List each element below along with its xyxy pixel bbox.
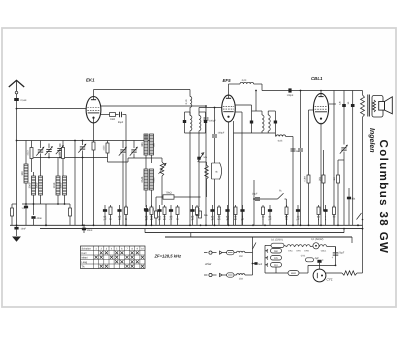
svg-text:M: M	[125, 218, 127, 221]
resistor R9	[196, 208, 199, 216]
svg-text:0546: 0546	[141, 176, 144, 182]
wire CBL1 anode right	[329, 103, 336, 105]
resistor R10 75kΩ	[156, 196, 163, 198]
heater EF5	[295, 245, 302, 247]
wire CBL1 top cap	[320, 91, 322, 95]
capacitor C15	[291, 148, 296, 150]
speaker LS	[379, 102, 385, 111]
wire T1 bottom drop	[189, 133, 191, 225]
resistor R8 detector load	[198, 133, 200, 207]
switch table	[81, 246, 146, 269]
svg-text:CBL1: CBL1	[311, 76, 323, 81]
heater EK1	[287, 245, 294, 247]
component row item x227	[227, 205, 229, 225]
svg-text:M: M	[177, 218, 179, 221]
svg-text:Ingelen: Ingelen	[368, 128, 376, 153]
wire EF5 screen drop	[235, 111, 242, 113]
potentiometer P2 0,1M	[160, 162, 164, 176]
wire bottom join	[45, 204, 47, 225]
svg-text:Kurz: Kurz	[82, 252, 88, 255]
component row item x171	[170, 205, 172, 225]
svg-text:40nF: 40nF	[37, 217, 43, 220]
wire EF5 top cap	[228, 84, 230, 95]
component row item x235	[235, 205, 237, 225]
svg-text:102: 102	[239, 255, 244, 258]
svg-text:365: 365	[141, 142, 144, 147]
terminal antenna	[15, 91, 18, 94]
IF transformer T2 secondary coil	[268, 115, 270, 131]
svg-text:10nF: 10nF	[21, 228, 27, 231]
resistor R15 output zigzag	[361, 95, 365, 117]
svg-text:MNG: MNG	[291, 272, 296, 275]
coil L7 365	[150, 134, 154, 155]
svg-text:1013: 1013	[27, 150, 30, 156]
svg-text:100: 100	[21, 171, 24, 176]
svg-text:Lang: Lang	[82, 261, 88, 264]
resistor R6 1000 osc	[106, 143, 109, 153]
svg-text:100pF: 100pF	[287, 94, 294, 97]
wire osc bottom	[145, 190, 147, 207]
wire left block right drop	[74, 141, 76, 226]
svg-text:3000: 3000	[29, 182, 32, 188]
resistor R4	[69, 208, 72, 216]
svg-text:3000: 3000	[36, 182, 39, 188]
wire anode feed drop	[333, 91, 335, 206]
component row item x212	[212, 205, 214, 225]
wire rail R4	[165, 236, 352, 238]
wire EK1 cathode	[93, 117, 95, 226]
svg-text:100pF: 100pF	[209, 120, 216, 123]
variable capacitor C21 tone	[341, 147, 346, 149]
coil L5 3000	[63, 176, 67, 195]
coil L9 0530	[150, 169, 154, 190]
svg-text:1000: 1000	[103, 145, 106, 151]
wire rail R3	[145, 232, 344, 234]
coil L12 0,03 det	[274, 133, 276, 137]
switch S1 input	[252, 237, 254, 275]
coil L10 0,10	[190, 97, 192, 108]
component row item x298	[297, 205, 299, 225]
capacitor C13 100pF	[205, 106, 207, 117]
wire EF5 anode	[235, 104, 251, 106]
svg-text:kΩ: kΩ	[150, 218, 153, 221]
wire af coupling	[155, 197, 157, 211]
resistor R20 af zigzag	[205, 165, 209, 179]
capacitor C22	[298, 148, 303, 150]
trimmer C2	[38, 149, 43, 151]
component row item x197	[196, 205, 198, 225]
capacitor C6 1,5	[24, 206, 28, 209]
component row item x192	[192, 205, 194, 225]
coil L1 100	[24, 164, 28, 183]
component row item x146	[146, 205, 148, 225]
wire EF5 suppressor	[233, 121, 235, 225]
svg-text:4µF: 4µF	[315, 257, 320, 260]
switch S2 Tk	[278, 193, 284, 199]
wire mains drop	[335, 247, 337, 266]
component row item x110	[110, 205, 112, 225]
wire rail R1 chassis	[10, 224, 363, 226]
variable capacitor C4 tuning	[57, 147, 62, 149]
capacitor C7 20nF	[82, 228, 86, 231]
resistor R13 1M	[337, 175, 340, 183]
switch S3 output	[357, 213, 362, 220]
capacitor C5 40nF	[31, 216, 35, 219]
resistor R14 25k	[322, 175, 325, 183]
svg-text:0530: 0530	[153, 177, 156, 183]
capacitor C24 4µF	[317, 260, 321, 263]
svg-text:1013: 1013	[53, 182, 56, 188]
svg-text:M: M	[110, 218, 112, 221]
wire filter loop	[308, 264, 336, 266]
svg-text:5nF: 5nF	[258, 263, 263, 266]
svg-text:75kΩ: 75kΩ	[165, 192, 171, 195]
wire T2 left to cathode	[234, 132, 252, 134]
capacitor 10nF to ground	[14, 227, 18, 230]
capacitor C8 50pF	[119, 112, 121, 118]
component row item x177	[177, 205, 179, 225]
trimmer C10 osc	[131, 149, 136, 151]
resistor R18 cathode EK1	[92, 142, 95, 150]
component row item x105	[104, 205, 106, 225]
resistor R11	[155, 211, 158, 218]
svg-text:0,3M: 0,3M	[304, 176, 307, 181]
resistor R12 0,3M	[307, 175, 310, 183]
svg-text:103: 103	[239, 278, 244, 281]
node grid CBL1	[320, 90, 322, 92]
resistor R7	[199, 211, 202, 218]
heater EFB	[303, 245, 310, 247]
svg-text:0,03: 0,03	[278, 140, 283, 143]
node grid EK1	[74, 140, 76, 142]
capacitor C12	[149, 208, 153, 211]
wire to detector line	[261, 84, 263, 91]
svg-text:CBL1: CBL1	[321, 250, 327, 253]
svg-text:3000: 3000	[60, 182, 63, 188]
svg-text:+: +	[322, 258, 324, 262]
svg-text:0,03: 0,03	[242, 79, 247, 82]
svg-text:kΩ: kΩ	[163, 218, 166, 221]
potentiometer P1 volume	[211, 163, 213, 179]
wire osc mid	[128, 157, 152, 159]
component row item x126	[125, 205, 127, 225]
resistor R3 left edge	[11, 208, 14, 216]
coil L3 3000	[39, 176, 43, 195]
svg-text:EFB: EFB	[304, 250, 309, 253]
svg-text:Schalter: Schalter	[82, 247, 91, 250]
resistor R17 zigzag	[326, 272, 342, 274]
resistor R5 1000	[101, 114, 110, 116]
fuse MNG	[288, 271, 299, 276]
coil L6 365	[144, 134, 148, 155]
wire osc top rail	[75, 140, 151, 142]
capacitor C16 100µF	[214, 108, 216, 135]
svg-text:Mittel: Mittel	[82, 256, 88, 259]
wire mid junction	[34, 157, 108, 159]
svg-text:20µF: 20µF	[339, 252, 345, 255]
IF transformer T1 secondary coil	[199, 116, 201, 131]
wire s2 drop	[253, 180, 255, 225]
svg-text:ZF=128,5 kHz: ZF=128,5 kHz	[154, 254, 183, 259]
capacitor C23 20µF electrolytic	[333, 252, 339, 254]
coil L2 3000	[32, 176, 36, 195]
voltage selector taps	[271, 249, 282, 254]
pickup input 1	[204, 252, 208, 254]
coil L11 0,03	[240, 82, 254, 84]
variable capacitor C25 osc grid	[80, 146, 85, 148]
svg-text:kΩ: kΩ	[218, 218, 221, 221]
wire EK1 screen right	[101, 105, 206, 107]
svg-text:ASw: ASw	[204, 262, 212, 266]
component row item x119	[119, 205, 121, 225]
wire T1 to EF5 grid	[198, 108, 200, 113]
capacitor C17 20µF	[254, 198, 278, 200]
resistor R1 1013	[30, 148, 33, 159]
svg-text:20nF: 20nF	[87, 229, 93, 232]
tube CY1 rectifier	[313, 269, 326, 282]
svg-text:EK1: EK1	[86, 78, 95, 83]
wire antenna to grid	[16, 94, 18, 225]
svg-text:EF5: EF5	[223, 78, 232, 83]
component row item x318	[318, 205, 320, 225]
svg-text:50pF: 50pF	[118, 121, 124, 124]
svg-text:CY1: CY1	[327, 278, 333, 282]
svg-text:1M: 1M	[333, 177, 336, 180]
wire heater end	[327, 246, 336, 248]
resistor R2 1013	[62, 148, 65, 159]
coil L4 1013	[56, 176, 60, 195]
svg-text:20µF: 20µF	[252, 193, 258, 196]
svg-text:Columbus 38 GW: Columbus 38 GW	[377, 140, 389, 255]
svg-text:CY1: CY1	[301, 255, 306, 258]
tube EK1	[86, 97, 101, 123]
component row item x242	[242, 205, 244, 225]
wire rail R2	[40, 228, 363, 230]
capacitor antenna series 0,5nF	[14, 98, 19, 101]
pill MELD	[306, 258, 314, 262]
component row item x219	[218, 205, 220, 225]
variable capacitor C3 tuning	[46, 148, 51, 150]
component row item x325	[325, 205, 327, 225]
capacitor C26	[348, 188, 350, 225]
wire left block bottom	[22, 203, 70, 205]
component row item x164	[164, 205, 166, 225]
antenna A1	[9, 80, 24, 87]
wire EK1 top cap to osc coil	[93, 90, 95, 97]
capacitor C19 12k	[343, 91, 345, 145]
component row item x286	[286, 205, 288, 225]
svg-text:TA: TA	[82, 265, 85, 268]
wire EF5 cathode	[228, 122, 230, 225]
coil L8 0546	[144, 169, 148, 190]
wire CBL1 cathode	[320, 123, 322, 226]
wire left block top rail	[17, 140, 76, 142]
component row item x334	[333, 205, 335, 225]
speaker LS voice coil	[372, 96, 383, 118]
svg-text:kΩ: kΩ	[234, 218, 237, 221]
component row item x263	[262, 205, 264, 225]
junction dots rail	[16, 224, 18, 226]
component row item x151	[151, 205, 153, 225]
IF transformer T2 primary coil	[262, 115, 264, 131]
svg-text:0,1 (53,5V): 0,1 (53,5V)	[311, 238, 324, 241]
svg-text:0,5nF: 0,5nF	[21, 99, 28, 102]
component row item x270	[269, 205, 271, 225]
svg-text:1013: 1013	[58, 150, 61, 156]
tube EF5	[222, 95, 236, 122]
svg-text:+: +	[332, 256, 334, 260]
component row item x159	[159, 205, 161, 225]
svg-text:100µF: 100µF	[218, 132, 225, 135]
tube CBL1	[313, 93, 328, 123]
ground	[12, 237, 21, 242]
capacitor C14 100pF	[288, 88, 291, 92]
lamp dial	[313, 243, 319, 249]
transformer T3 core	[367, 95, 369, 117]
svg-text:0,1 (220V): 0,1 (220V)	[271, 239, 283, 242]
svg-text:1000: 1000	[110, 118, 116, 121]
IF transformer T1 primary coil	[190, 116, 192, 131]
svg-text:M: M	[286, 218, 288, 221]
heater CBL1	[320, 245, 327, 247]
capacitor C11	[144, 208, 148, 211]
capacitor C20 50	[352, 91, 354, 226]
wire T2 riser	[255, 91, 257, 112]
variable capacitor C9 osc	[120, 149, 125, 151]
svg-text:0,10: 0,10	[185, 99, 188, 104]
pickup input 2	[204, 274, 208, 276]
